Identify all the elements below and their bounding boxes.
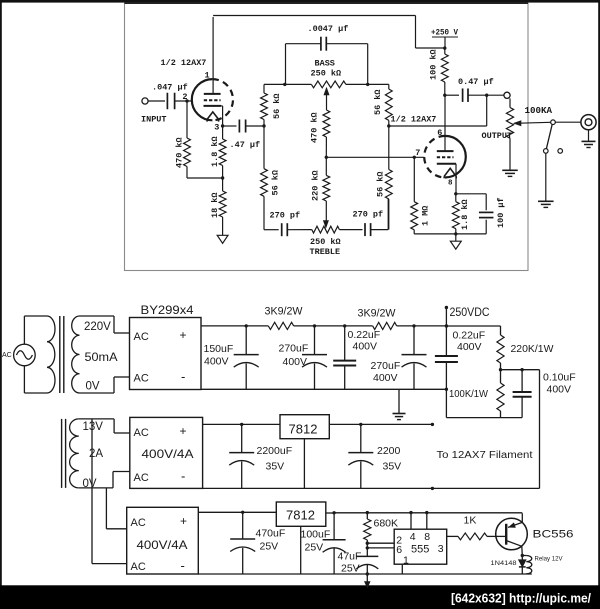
- svg-text:3: 3: [214, 123, 219, 133]
- svg-text:400V: 400V: [353, 341, 378, 353]
- svg-text:400V: 400V: [373, 372, 398, 384]
- svg-text:250 kΩ: 250 kΩ: [311, 69, 342, 79]
- svg-text:250 kΩ: 250 kΩ: [310, 237, 341, 247]
- svg-text:1.8 kΩ: 1.8 kΩ: [210, 136, 220, 167]
- svg-text:-: -: [181, 469, 185, 484]
- svg-text:.0047 µf: .0047 µf: [308, 24, 349, 34]
- svg-text:470uF: 470uF: [256, 528, 286, 540]
- svg-text:220V: 220V: [84, 321, 111, 333]
- svg-text:7812: 7812: [286, 508, 315, 523]
- svg-text:400V: 400V: [283, 356, 308, 368]
- svg-text:2200uF: 2200uF: [257, 445, 293, 457]
- svg-text:2: 2: [182, 92, 187, 102]
- svg-text:0V: 0V: [83, 478, 97, 490]
- svg-text:56 kΩ: 56 kΩ: [271, 170, 281, 196]
- svg-text:2200: 2200: [377, 445, 401, 457]
- svg-text:4: 4: [410, 531, 416, 543]
- svg-text:35V: 35V: [266, 461, 285, 473]
- svg-text:BC556: BC556: [533, 529, 574, 541]
- svg-text:1K: 1K: [464, 515, 477, 527]
- svg-text:3: 3: [438, 543, 444, 555]
- svg-text:8: 8: [424, 531, 430, 543]
- svg-text:OUTPUT: OUTPUT: [482, 131, 513, 141]
- svg-text:0.47 µf: 0.47 µf: [458, 77, 494, 87]
- svg-text:25V: 25V: [305, 542, 324, 554]
- svg-text:47uF: 47uF: [338, 551, 362, 563]
- svg-text:.047 µf: .047 µf: [152, 83, 188, 93]
- svg-text:7812: 7812: [289, 422, 318, 437]
- svg-text:400V: 400V: [457, 341, 482, 353]
- svg-text:AC: AC: [134, 427, 149, 439]
- svg-text:To 12AX7 Filament: To 12AX7 Filament: [437, 450, 533, 461]
- svg-text:555: 555: [411, 544, 429, 556]
- svg-text:400V/4A: 400V/4A: [137, 538, 188, 552]
- svg-text:1/2 12AX7: 1/2 12AX7: [391, 114, 437, 124]
- svg-text:100K/1W: 100K/1W: [449, 388, 488, 400]
- svg-text:0.22uF: 0.22uF: [453, 330, 486, 342]
- svg-text:+: +: [180, 424, 187, 438]
- svg-text:+: +: [180, 514, 187, 528]
- svg-text:50mA: 50mA: [85, 352, 118, 364]
- svg-text:400V: 400V: [204, 356, 229, 368]
- svg-text:1/2 12AX7: 1/2 12AX7: [161, 58, 207, 68]
- svg-text:AC: AC: [134, 373, 149, 385]
- svg-text:35V: 35V: [383, 461, 402, 473]
- svg-text:2A: 2A: [89, 448, 103, 460]
- svg-text:7: 7: [415, 148, 420, 158]
- svg-text:470 kΩ: 470 kΩ: [175, 137, 185, 168]
- svg-text:AC: AC: [131, 561, 146, 573]
- svg-text:6: 6: [437, 128, 442, 138]
- svg-text:270uF: 270uF: [371, 360, 401, 372]
- svg-text:470 kΩ: 470 kΩ: [310, 112, 320, 143]
- svg-text:-: -: [181, 369, 185, 384]
- svg-text:AC: AC: [134, 331, 149, 343]
- svg-text:25V: 25V: [260, 541, 279, 553]
- svg-text:TREBLE: TREBLE: [310, 247, 341, 257]
- svg-text:220 kΩ: 220 kΩ: [311, 170, 321, 201]
- svg-text:1: 1: [205, 71, 210, 81]
- svg-text:0.10uF: 0.10uF: [543, 372, 576, 384]
- svg-text:3K9/2W: 3K9/2W: [265, 306, 304, 318]
- svg-text:100KA: 100KA: [525, 105, 553, 116]
- svg-text:250VDC: 250VDC: [450, 307, 490, 319]
- svg-text:270 pf: 270 pf: [270, 211, 301, 221]
- svg-text:BASS: BASS: [315, 59, 335, 69]
- svg-text:1: 1: [403, 554, 409, 566]
- svg-text:-: -: [181, 558, 185, 573]
- svg-text:INPUT: INPUT: [141, 115, 167, 125]
- svg-text:270 pf: 270 pf: [353, 210, 384, 220]
- svg-text:+250 V: +250 V: [431, 28, 459, 38]
- svg-text:AC: AC: [131, 517, 146, 529]
- svg-text:1N4148: 1N4148: [491, 561, 518, 567]
- svg-text:6: 6: [396, 544, 402, 556]
- svg-text:56 kΩ: 56 kΩ: [272, 93, 282, 119]
- svg-text:220K/1W: 220K/1W: [511, 343, 554, 355]
- svg-text:0.22uF: 0.22uF: [348, 329, 381, 341]
- svg-text:1.8 kΩ: 1.8 kΩ: [460, 199, 470, 230]
- svg-text:Relay 12V: Relay 12V: [535, 556, 563, 562]
- svg-text:AC: AC: [2, 352, 12, 359]
- svg-text:BY299x4: BY299x4: [141, 305, 195, 317]
- svg-text:100 µf: 100 µf: [496, 197, 506, 228]
- svg-text:100 kΩ: 100 kΩ: [429, 49, 439, 80]
- svg-text:0V: 0V: [86, 381, 100, 393]
- svg-text:AC: AC: [134, 472, 149, 484]
- svg-text:18 kΩ: 18 kΩ: [210, 192, 220, 218]
- svg-text:270uF: 270uF: [279, 343, 309, 355]
- svg-text:+: +: [180, 328, 187, 342]
- svg-text:.47 µf: .47 µf: [230, 140, 261, 150]
- svg-text:56 kΩ: 56 kΩ: [376, 171, 386, 197]
- svg-text:400V/4A: 400V/4A: [142, 447, 194, 461]
- svg-text:[642x632] http://upic.me/: [642x632] http://upic.me/: [451, 591, 591, 606]
- svg-text:1 MΩ: 1 MΩ: [421, 206, 431, 226]
- svg-text:400V: 400V: [547, 384, 572, 396]
- svg-text:150uF: 150uF: [204, 343, 234, 355]
- svg-text:8: 8: [448, 180, 453, 188]
- svg-text:680K: 680K: [374, 518, 399, 530]
- svg-text:56 kΩ: 56 kΩ: [373, 89, 383, 115]
- svg-text:25V: 25V: [341, 563, 360, 575]
- svg-text:13V: 13V: [83, 421, 104, 433]
- svg-text:100uF: 100uF: [301, 529, 331, 541]
- svg-text:3K9/2W: 3K9/2W: [358, 308, 397, 320]
